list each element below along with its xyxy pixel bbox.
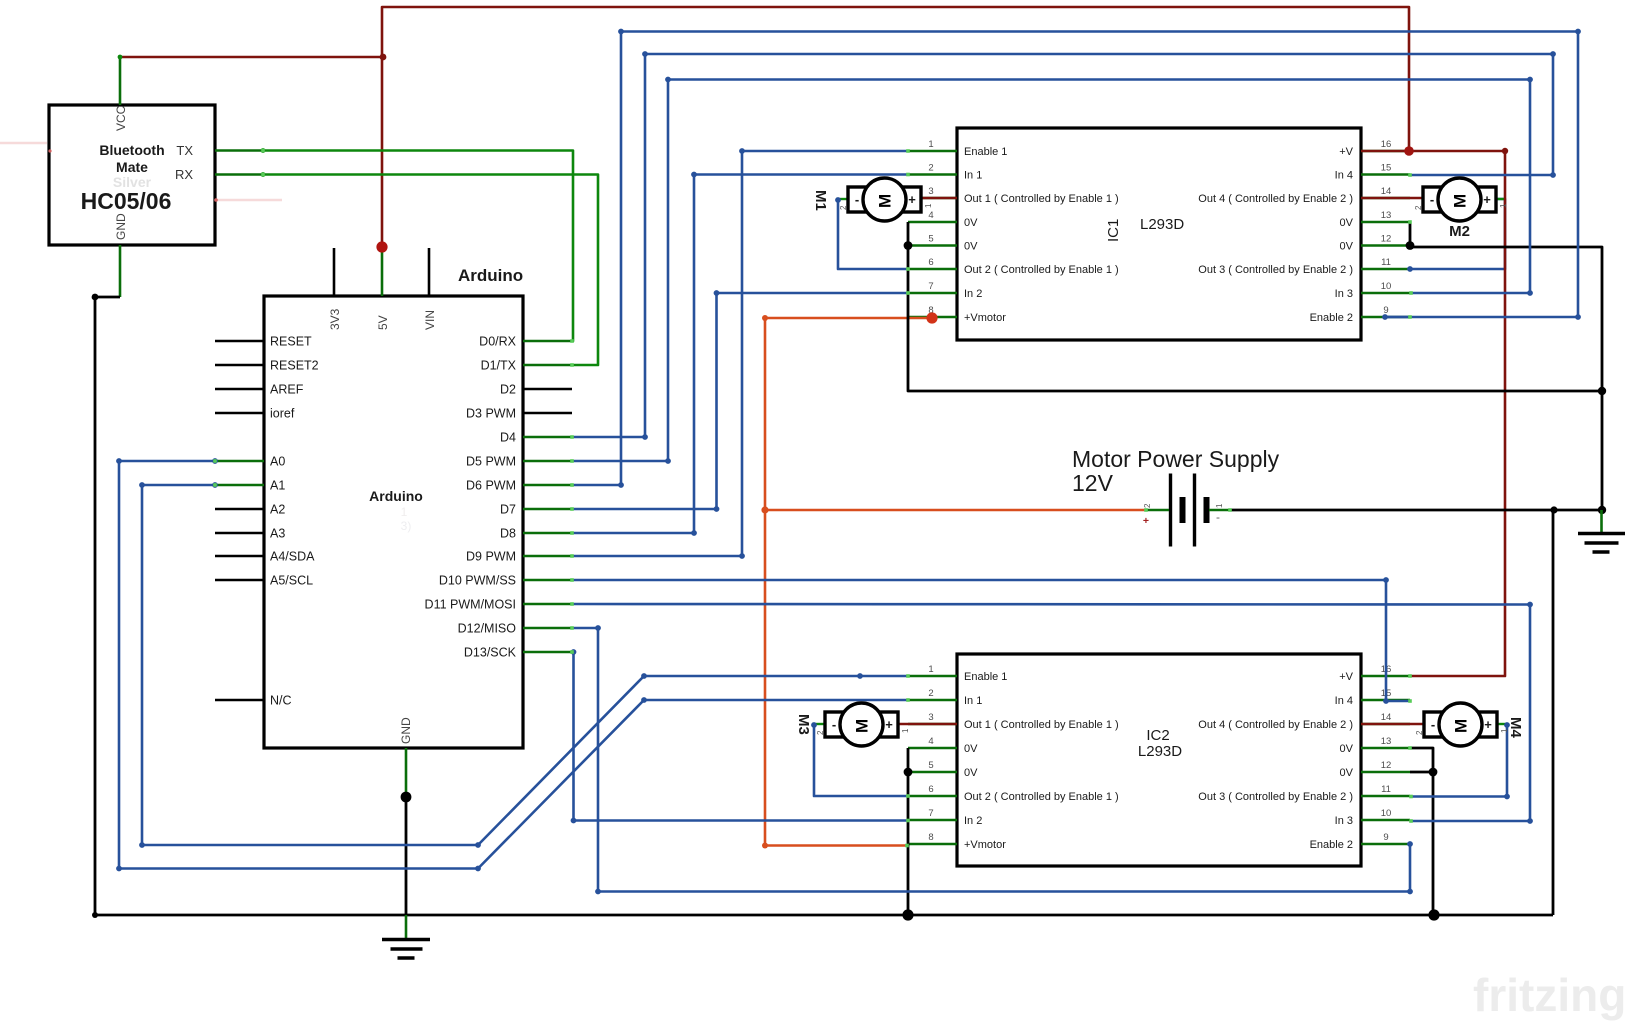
wire right ground riser (black) — [1410, 222, 1602, 510]
svg-text:A2: A2 — [270, 503, 285, 517]
svg-text:13: 13 — [1381, 210, 1392, 221]
wire +Vmotor net (orange) IC1 pin8 to IC2 pin8 — [765, 318, 932, 846]
wire ground bus bottom (black) — [95, 914, 1553, 917]
wire D12 to IC2 Enable2 (blue) — [572, 628, 1410, 892]
svg-text:2: 2 — [816, 730, 825, 735]
svg-text:IC1: IC1 — [1105, 219, 1122, 242]
svg-text:D10 PWM/SS: D10 PWM/SS — [439, 574, 516, 588]
svg-text:Out 3 ( Controlled by Enable 2: Out 3 ( Controlled by Enable 2 ) — [1198, 264, 1353, 276]
svg-text:5: 5 — [928, 760, 933, 771]
svg-text:M3: M3 — [795, 714, 812, 735]
battery BT1 pin stubs — [1146, 509, 1169, 512]
svg-text:2: 2 — [928, 163, 933, 174]
svg-text:A5/SCL: A5/SCL — [270, 574, 313, 588]
IC2 left pin numbers — [928, 664, 933, 843]
svg-text:+: + — [1484, 717, 1492, 732]
svg-text:A1: A1 — [270, 479, 285, 493]
wire M1 - green pigtail — [836, 198, 850, 200]
IC1 right pin numbers — [1381, 139, 1392, 316]
svg-text:Out 4 ( Controlled by Enable 2: Out 4 ( Controlled by Enable 2 ) — [1198, 193, 1353, 205]
svg-text:2: 2 — [1143, 503, 1152, 508]
wire IC2 0V pin12 link (black) — [1410, 771, 1433, 774]
battery BT1 Motor Power Supply plates — [1169, 474, 1172, 547]
node: right ground junction (black) — [1598, 506, 1606, 514]
svg-text:1: 1 — [924, 203, 933, 208]
svg-text:Arduino: Arduino — [458, 266, 523, 285]
wire D4 to IC1 In4 (blue) — [572, 54, 1553, 437]
svg-text:RESET2: RESET2 — [270, 359, 319, 373]
svg-text:10: 10 — [1381, 281, 1392, 292]
IC2 left pin labels — [964, 671, 1119, 851]
node: IC2 0V left junction (black) — [904, 768, 913, 777]
bluetooth module U3 HC05/06 box — [49, 105, 215, 245]
svg-text:Out 4 ( Controlled by Enable 2: Out 4 ( Controlled by Enable 2 ) — [1198, 719, 1353, 731]
Arduino left pin stubs — [215, 341, 264, 700]
svg-text:D9 PWM: D9 PWM — [466, 550, 516, 564]
svg-text:D2: D2 — [500, 383, 516, 397]
svg-text:0V: 0V — [1340, 241, 1354, 253]
svg-text:-: - — [855, 192, 859, 207]
svg-text:D12/MISO: D12/MISO — [458, 622, 517, 636]
svg-text:Out 1 ( Controlled by Enable 1: Out 1 ( Controlled by Enable 1 ) — [964, 193, 1119, 205]
svg-text:9: 9 — [1383, 832, 1388, 843]
svg-text:A3: A3 — [270, 527, 285, 541]
svg-text:+: + — [1143, 515, 1149, 527]
node: Arduino GND junction (black) — [401, 792, 412, 803]
node: IC1 0V right junction (black) — [1406, 241, 1415, 250]
svg-text:Enable 2: Enable 2 — [1310, 839, 1353, 851]
wire Arduino A1 to IC2 Enable1 (blue) — [142, 485, 907, 845]
node: bus junction under IC2 left (black) — [902, 909, 913, 920]
svg-text:M: M — [1451, 194, 1470, 208]
ground (Arduino GND) — [382, 915, 430, 958]
svg-text:VCC: VCC — [114, 105, 128, 131]
svg-text:5V: 5V — [376, 315, 390, 330]
wire M2+ green pigtail — [1490, 198, 1505, 200]
svg-text:In 4: In 4 — [1335, 170, 1353, 182]
svg-text:12: 12 — [1381, 760, 1392, 771]
svg-text:3V3: 3V3 — [328, 308, 342, 330]
node: BT GND corner (black) — [92, 294, 99, 301]
svg-text:D0/RX: D0/RX — [479, 335, 516, 349]
svg-text:1: 1 — [401, 505, 408, 519]
svg-text:2: 2 — [928, 688, 933, 699]
svg-text:5: 5 — [928, 234, 933, 245]
svg-text:12V: 12V — [1072, 470, 1114, 496]
svg-text:VIN: VIN — [423, 310, 437, 330]
wire IC2 0V left to bus (black) — [907, 748, 910, 915]
node: 5V junction at Arduino 5V pin (red) — [376, 241, 387, 252]
svg-text:+Vmotor: +Vmotor — [964, 839, 1006, 851]
svg-text:0V: 0V — [1340, 767, 1354, 779]
svg-text:8: 8 — [928, 832, 933, 843]
wire bendpoint dots (orange) — [762, 315, 768, 849]
svg-text:L293D: L293D — [1140, 216, 1184, 233]
wire battery - to ground (black) — [1230, 509, 1602, 512]
svg-text:AREF: AREF — [270, 383, 304, 397]
svg-text:In 1: In 1 — [964, 695, 982, 707]
wire IC2 0V right to bus (black) — [1410, 748, 1433, 915]
motor M1 — [812, 178, 933, 221]
svg-text:Enable 2: Enable 2 — [1310, 312, 1353, 324]
wire D11 to IC2 In3 (blue) — [572, 604, 1530, 821]
IC IC1 L293D box — [957, 128, 1361, 340]
svg-text:+Vmotor: +Vmotor — [964, 312, 1006, 324]
wire bus riser right (black) — [1552, 510, 1555, 915]
Arduino right pin labels — [425, 335, 517, 660]
wire battery + to +Vmotor net (orange) — [765, 509, 1146, 512]
wire M4 + to IC2 Out3 (blue) — [1411, 725, 1507, 797]
wire Arduino A0 to IC2 In1 (blue) — [119, 461, 907, 869]
svg-text:D5 PWM: D5 PWM — [466, 455, 516, 469]
wire Arduino GND to ground (black) — [405, 797, 408, 915]
svg-text:14: 14 — [1381, 712, 1392, 723]
svg-text:N/C: N/C — [270, 694, 292, 708]
Arduino bottom pin stub GND — [405, 748, 408, 797]
svg-text:D7: D7 — [500, 503, 516, 517]
svg-text:3: 3 — [928, 186, 933, 197]
wire bendpoint dots (green) — [118, 55, 266, 177]
node: IC2 0V right junction (black) — [1429, 768, 1438, 777]
node: orange battery tap — [761, 506, 768, 513]
svg-text:-: - — [832, 717, 836, 732]
node: bus junction under IC2 right (black) — [1428, 909, 1439, 920]
svg-text:D4: D4 — [500, 431, 516, 445]
Arduino U1 box — [264, 296, 523, 748]
node: IC1 +Vmotor junction (orange-red) — [926, 312, 937, 323]
svg-text:6: 6 — [928, 257, 933, 268]
svg-text:1: 1 — [1215, 503, 1224, 508]
svg-text:In 2: In 2 — [964, 288, 982, 300]
svg-text:M: M — [853, 719, 872, 733]
svg-text:fritzing: fritzing — [1473, 969, 1625, 1021]
IC2 right pin labels — [1198, 671, 1353, 851]
wire bendpoint dots (blue) — [116, 29, 1581, 895]
svg-text:0V: 0V — [964, 241, 978, 253]
svg-text:+V: +V — [1339, 671, 1353, 683]
wire IC2 Out4 to M4 - (dark red) — [1361, 723, 1426, 726]
svg-text:1: 1 — [928, 139, 933, 150]
U3 pin GND stub — [119, 245, 122, 297]
svg-text:16: 16 — [1381, 139, 1392, 150]
svg-text:3): 3) — [401, 519, 412, 533]
motor M4 — [1415, 703, 1524, 746]
ground (right / battery minus) — [1578, 510, 1625, 552]
svg-text:Enable 1: Enable 1 — [964, 146, 1007, 158]
svg-text:In 3: In 3 — [1335, 815, 1353, 827]
svg-text:Enable 1: Enable 1 — [964, 671, 1007, 683]
Arduino top pin stubs 3V3 5V VIN — [334, 248, 429, 296]
wire D5 to IC1 In3 (blue) — [572, 80, 1530, 462]
IC2 right pin stubs 16-9 — [1361, 676, 1410, 844]
svg-text:11: 11 — [1381, 784, 1391, 795]
svg-text:In 3: In 3 — [1335, 288, 1353, 300]
node: VCC/5V tap (dark red) — [380, 54, 387, 61]
svg-text:13: 13 — [1381, 736, 1392, 747]
svg-text:A0: A0 — [270, 455, 285, 469]
motor M3 — [795, 703, 910, 746]
svg-text:-: - — [1430, 192, 1434, 207]
svg-text:1: 1 — [901, 728, 910, 733]
node: bus-391 right junction (black) — [1598, 387, 1606, 395]
svg-text:A4/SDA: A4/SDA — [270, 550, 315, 564]
svg-text:+V: +V — [1339, 146, 1353, 158]
Arduino right pin stubs D0-D13 — [523, 341, 572, 652]
svg-text:11: 11 — [1381, 257, 1391, 268]
svg-text:-: - — [1216, 510, 1220, 524]
svg-text:12: 12 — [1381, 234, 1392, 245]
svg-text:+: + — [908, 192, 916, 207]
svg-text:Motor Power Supply: Motor Power Supply — [1072, 446, 1280, 472]
svg-text:Out 1 ( Controlled by Enable 1: Out 1 ( Controlled by Enable 1 ) — [964, 719, 1119, 731]
svg-text:14: 14 — [1381, 186, 1392, 197]
pin connection caps (light green) — [213, 149, 1413, 848]
IC1 left pin numbers — [928, 139, 933, 316]
U3 pin RX stub — [215, 173, 263, 176]
ghost artifact lines — [0, 142, 47, 144]
svg-text:2: 2 — [1414, 205, 1423, 210]
wire M3 - green pigtail — [812, 723, 827, 725]
wire M2+ to IC1 Out3 (vertical hidden under red) — [1410, 199, 1505, 269]
wire 5V bus (dark red) Arduino 5V to IC1 +V — [382, 7, 1409, 247]
svg-text:7: 7 — [928, 281, 933, 292]
svg-text:RX: RX — [175, 167, 193, 182]
svg-text:M4: M4 — [1507, 717, 1524, 738]
svg-text:RESET: RESET — [270, 335, 312, 349]
wire IC1 Out4 to M2 - (dark red) — [1361, 197, 1425, 200]
svg-text:D13/SCK: D13/SCK — [464, 646, 517, 660]
IC2 left pin stubs 1-8 — [908, 676, 957, 844]
wire IC1 +V to IC2 +V (dark red) — [1409, 151, 1505, 676]
svg-text:D8: D8 — [500, 527, 516, 541]
svg-text:Out 2 ( Controlled by Enable 1: Out 2 ( Controlled by Enable 1 ) — [964, 264, 1119, 276]
svg-text:M2: M2 — [1449, 223, 1470, 240]
svg-text:Arduino: Arduino — [369, 488, 423, 504]
wire D9 to IC1 Enable1 (blue) — [572, 151, 907, 556]
wire BT RX to Arduino D1/TX (green) — [263, 175, 598, 366]
svg-text:D3 PWM: D3 PWM — [466, 407, 516, 421]
motor M2 — [1414, 178, 1508, 240]
svg-text:0V: 0V — [1340, 217, 1354, 229]
svg-text:Mate: Mate — [116, 159, 148, 175]
wire BT GND down left side (black) — [95, 297, 120, 915]
svg-text:M1: M1 — [812, 190, 829, 211]
wire M1 - to IC1 Out2 (blue) — [838, 200, 907, 269]
svg-text:TX: TX — [176, 143, 193, 158]
svg-text:10: 10 — [1381, 808, 1392, 819]
svg-text:D1/TX: D1/TX — [481, 359, 517, 373]
svg-text:-: - — [1431, 717, 1435, 732]
svg-text:0V: 0V — [964, 743, 978, 755]
IC1 left pin labels — [964, 146, 1119, 324]
svg-text:HC05/06: HC05/06 — [81, 188, 172, 214]
wire D13 to IC2 In2 (blue) — [572, 652, 907, 821]
svg-text:GND: GND — [114, 213, 128, 240]
svg-text:M: M — [1452, 719, 1471, 733]
wire D7 to IC1 In2 (blue) — [572, 293, 907, 509]
svg-text:7: 7 — [928, 808, 933, 819]
IC1 left pin stubs 1-8 — [908, 151, 957, 317]
svg-text:Bluetooth: Bluetooth — [99, 142, 164, 158]
svg-text:+: + — [1483, 192, 1491, 207]
svg-text:15: 15 — [1381, 163, 1392, 174]
svg-text:+: + — [885, 717, 893, 732]
wire M3 - to IC2 Out2 (blue) — [814, 725, 907, 796]
svg-text:D6 PWM: D6 PWM — [466, 479, 516, 493]
wire M1 + to IC1 Out1 (dark red) — [918, 197, 957, 200]
wire BT VCC to 5V (dark red) — [120, 56, 383, 59]
svg-text:In 4: In 4 — [1335, 695, 1353, 707]
wire M3 + to IC2 Out1 (dark red) — [894, 723, 957, 726]
svg-text:ioref: ioref — [270, 407, 295, 421]
svg-text:1: 1 — [928, 664, 933, 675]
U3 pin TX stub — [215, 149, 263, 152]
node: +V corner (dark red) — [1502, 148, 1508, 154]
IC1 right pin stubs 16-9 — [1361, 151, 1410, 317]
svg-text:In 1: In 1 — [964, 170, 982, 182]
wire M4 + green pigtail — [1492, 723, 1507, 725]
wire IC1 Enable2 stub link (blue) — [1385, 316, 1410, 319]
IC2 right pin numbers — [1381, 664, 1392, 843]
IC IC2 L293D box — [957, 654, 1361, 866]
svg-text:1: 1 — [1499, 203, 1508, 208]
wire D8 to IC1 In1 (blue) — [572, 175, 907, 534]
svg-text:0V: 0V — [964, 217, 978, 229]
svg-text:L293D: L293D — [1138, 743, 1182, 760]
IC1 right pin labels — [1198, 146, 1353, 324]
wire D10 to IC2 In4 (blue) — [572, 580, 1410, 701]
U3 pin VCC stub — [119, 57, 122, 105]
node: bus riser tap (black) — [1550, 506, 1557, 513]
svg-text:Out 3 ( Controlled by Enable 2: Out 3 ( Controlled by Enable 2 ) — [1198, 791, 1353, 803]
svg-text:GND: GND — [399, 717, 413, 744]
svg-text:M: M — [876, 194, 895, 208]
wire IC1 +V stub overlay (dark red) — [1361, 150, 1410, 153]
Arduino left pin labels — [270, 335, 319, 708]
svg-text:Out 2 ( Controlled by Enable 1: Out 2 ( Controlled by Enable 1 ) — [964, 791, 1119, 803]
wire 0V bus IC1 (black) — [908, 222, 1602, 391]
svg-text:4: 4 — [928, 210, 933, 221]
node: IC1 +V junction (dark red) — [1404, 146, 1414, 156]
wire D6 to IC1 Enable2 (blue) — [572, 32, 1578, 486]
node: IC1 0V left junction (black) — [904, 241, 913, 250]
svg-text:6: 6 — [928, 784, 933, 795]
node: bus left end (black) — [92, 912, 98, 918]
svg-text:2: 2 — [1415, 730, 1424, 735]
svg-text:3: 3 — [928, 712, 933, 723]
svg-text:IC2: IC2 — [1146, 727, 1169, 744]
wire BT TX to Arduino D0/RX (green) — [263, 151, 573, 342]
svg-text:In 2: In 2 — [964, 815, 982, 827]
svg-text:2: 2 — [839, 205, 848, 210]
svg-text:D11 PWM/MOSI: D11 PWM/MOSI — [425, 598, 516, 612]
svg-text:0V: 0V — [1340, 743, 1354, 755]
svg-text:4: 4 — [928, 736, 933, 747]
svg-text:0V: 0V — [964, 767, 978, 779]
